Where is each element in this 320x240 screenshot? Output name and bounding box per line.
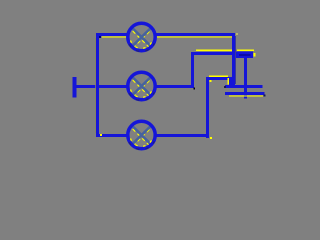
wire: top branch yellow highlight right <box>155 36 233 37</box>
node dot: bottom-left corner yellow <box>100 134 102 136</box>
node dot: W3 left corner yellow <box>210 80 212 82</box>
wire: W3 horizontal run blue <box>206 77 231 80</box>
lamp L3 <box>128 121 155 149</box>
lamp L2 <box>128 72 155 100</box>
wire: bus faint left edge tint <box>94 38 97 133</box>
wire: W3 down-turn to battery plate <box>229 77 232 86</box>
battery B1 stem lead <box>244 57 247 99</box>
wire: stub to left bus (middle branch left) <box>76 85 128 88</box>
wire: bottom branch left of lamp L3 <box>96 134 128 137</box>
battery B1 thin plate upper <box>225 85 263 88</box>
wire: bottom-right riser vertical W3 <box>206 77 209 138</box>
wire: W3 down-turn yellow strip <box>228 78 230 85</box>
battery terminal plate (left stub) <box>73 77 77 98</box>
node dot: W2 bottom corner <box>193 88 195 90</box>
wire: middle riser vertical W2 <box>191 52 194 88</box>
wire: top branch yellow highlight left <box>102 36 128 37</box>
lamp L1 <box>128 23 155 51</box>
wire: right long vertical V1 <box>232 33 235 86</box>
wire: W3 yellow highlight above <box>209 75 228 76</box>
battery B1 thick plate inner dark line <box>239 55 251 56</box>
wire: bottom branch right of lamp L3 <box>155 134 210 137</box>
battery B1 thick plate (capsule) <box>236 52 253 58</box>
wire: middle branch right of lamp L2 <box>156 85 193 88</box>
wire: V1 dark shadow edge <box>235 36 236 84</box>
battery B1 thin plate lower <box>225 92 265 95</box>
battery B1 thin plate lower yellow highlight <box>229 95 263 96</box>
node dot: thin plate upper left end <box>224 86 226 88</box>
wire: W2 horizontal run blue <box>191 52 232 55</box>
wire: left vertical bus <box>96 33 99 137</box>
battery B1 thick plate yellow end dash <box>253 53 255 57</box>
wire: W2 yellow highlight above <box>196 49 232 50</box>
node dot: top-right corner pale mark <box>236 33 238 35</box>
node dot: thin plate lower right end <box>264 95 266 97</box>
wire: top branch horizontal right of lamp L1 <box>155 33 236 36</box>
node dot: top-left corner <box>99 36 101 38</box>
node dot: W3 bottom corner yellow <box>210 137 212 139</box>
wire: top branch horizontal left of lamp L1 <box>96 33 129 36</box>
battery B1 thick plate yellow top highlight <box>237 49 254 50</box>
